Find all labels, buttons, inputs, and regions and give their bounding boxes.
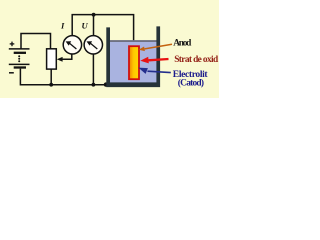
junction R1-bottom rail — [49, 83, 53, 87]
voltmeter V1 body — [84, 36, 102, 54]
wiper arm of R1 to ammeter bottom — [59, 54, 72, 59]
svg-text:Anod: Anod — [173, 39, 192, 49]
junction voltmeter-bottom rail — [92, 83, 96, 87]
wire battery+ to rheostat top (node A loop) — [21, 34, 51, 49]
ammeter A1 needle — [66, 41, 77, 49]
battery B1 plus label — [10, 42, 15, 47]
battery B1 cell1 long plate — [9, 48, 30, 50]
arrow Anod — [139, 44, 172, 51]
electrolyte liquid — [110, 42, 157, 83]
battery B1 cell2 long plate — [9, 63, 30, 65]
arrow Electrolit — [138, 68, 171, 74]
wire ammeter top to top rail to anode — [72, 15, 133, 46]
junction top rail / voltmeter — [92, 13, 96, 17]
battery B1 cell1 short plate — [14, 52, 26, 54]
battery B1 dotted cells — [18, 55, 20, 62]
ammeter A1 body — [63, 36, 81, 54]
liquid surface line — [110, 40, 157, 42]
wire voltmeter top lead — [93, 15, 95, 36]
svg-text:U: U — [82, 20, 89, 30]
svg-text:I: I — [60, 20, 65, 30]
wire R1 bottom to bottom rail — [50, 69, 52, 85]
svg-text:Strat de oxid: Strat de oxid — [174, 55, 219, 65]
arrow Strat de oxid — [140, 57, 168, 64]
junction bottom rail to cell cathode — [104, 82, 108, 86]
beaker (cathode vessel) — [106, 26, 160, 87]
wire battery- to bottom rail — [20, 69, 106, 85]
svg-text:(Catod): (Catod) — [178, 77, 204, 88]
resistor R1 (rheostat body) — [47, 49, 57, 69]
battery B1 cell2 short plate — [14, 66, 26, 68]
battery B1 minus label — [9, 72, 14, 74]
wiper arrowhead — [57, 57, 63, 62]
wire voltmeter bottom to bottom rail — [92, 54, 94, 85]
voltmeter V1 needle — [87, 41, 98, 49]
